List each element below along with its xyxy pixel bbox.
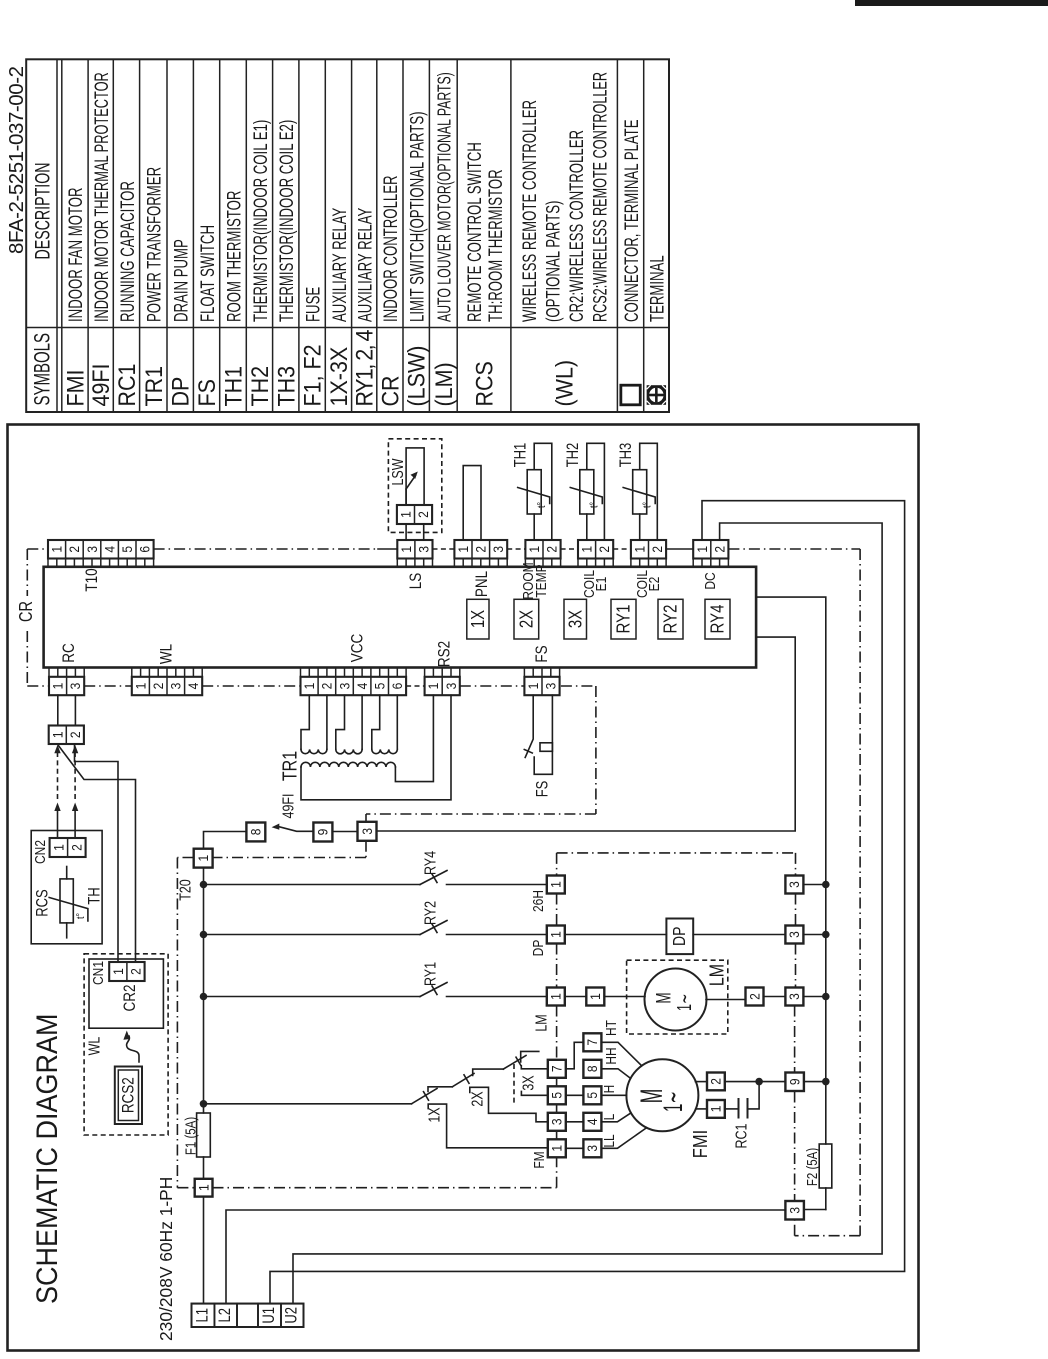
running capacitor RC1 (725, 1108, 739, 1110)
svg-text:230/208V 60Hz 1-PH: 230/208V 60Hz 1-PH (156, 1177, 176, 1341)
svg-text:5: 5 (584, 1092, 600, 1099)
wire CR box to 49FI (377, 637, 796, 831)
svg-text:3: 3 (543, 683, 559, 690)
svg-text:TH1: TH1 (221, 366, 247, 407)
stub wire to FM terminal 5 (H) (521, 1091, 547, 1095)
svg-text:9: 9 (787, 1078, 803, 1085)
svg-text:3X: 3X (519, 1075, 537, 1091)
svg-text:3: 3 (67, 683, 83, 690)
svg-text:RS2: RS2 (435, 641, 454, 667)
svg-text:2: 2 (67, 731, 83, 738)
svg-text:FS: FS (533, 645, 552, 662)
terminal 1b (LM row) (586, 988, 604, 1006)
optional 3X dashed line (513, 1064, 515, 1105)
relay contact 3X (503, 1056, 526, 1070)
wire DC pin1 to U1 (270, 501, 905, 1304)
svg-text:3: 3 (443, 683, 459, 690)
TR1 primary left to RS2 pin3 (301, 695, 451, 800)
svg-text:TH3: TH3 (273, 366, 299, 407)
relay contact RY1 (204, 996, 421, 998)
wire 26H-3 to bus (803, 884, 825, 886)
dashed mating arrows to CN2 (57, 752, 59, 800)
svg-text:1∼: 1∼ (673, 994, 696, 1011)
FM connector terminal 1 (548, 1139, 566, 1157)
svg-text:5: 5 (372, 683, 388, 690)
wire DC pin2 to U2 (293, 523, 882, 1304)
terminal 3 (LM row) (785, 988, 803, 1006)
svg-text:2: 2 (415, 511, 431, 518)
svg-text:INDOOR CONTROLLER: INDOOR CONTROLLER (380, 175, 402, 322)
wire CR box to relay output bus (756, 597, 826, 1144)
terminal 3 (26H) (785, 876, 803, 894)
svg-text:CR: CR (17, 601, 37, 622)
svg-text:F1, F2: F1, F2 (300, 344, 326, 406)
svg-text:2: 2 (746, 993, 762, 1000)
svg-text:1X: 1X (467, 610, 488, 628)
svg-text:WL: WL (157, 644, 176, 664)
svg-text:4: 4 (354, 683, 370, 690)
svg-text:CN2: CN2 (32, 840, 49, 864)
limit switch LSW dashed box (388, 439, 441, 533)
3X NO bar (521, 1051, 539, 1062)
svg-text:2: 2 (150, 683, 166, 690)
CR terminal 3 (49FI) (358, 822, 377, 841)
svg-text:DP: DP (670, 927, 689, 946)
svg-text:INDOOR MOTOR THERMAL PROTECTOR: INDOOR MOTOR THERMAL PROTECTOR (92, 72, 113, 322)
wire FMI to terminal 1 (696, 1108, 707, 1110)
CR dash-dot boundary top row (27, 548, 48, 550)
wire motor5 H to FMI (601, 1094, 626, 1096)
svg-text:RCS2: RCS2 (119, 1077, 138, 1113)
thermistor TH2 (587, 443, 605, 540)
wire junction to 1X row handled; F1 fuse (5A) (197, 1113, 211, 1157)
relay contact 2X (452, 1074, 474, 1087)
svg-text:RCS: RCS (472, 361, 498, 406)
svg-text:U1: U1 (261, 1307, 279, 1324)
svg-text:3: 3 (416, 546, 432, 553)
fuse F2 (5A) (819, 1144, 832, 1188)
svg-text:4: 4 (185, 683, 201, 690)
FM connector terminal 7 (548, 1060, 566, 1078)
crossover wires CN1 to plug (75, 744, 119, 962)
connector COIL E2 on CR (631, 540, 666, 559)
indoor fan motor FMI circle (626, 1059, 698, 1131)
svg-text:2X: 2X (468, 1091, 486, 1107)
connector DC on CR (693, 540, 728, 559)
svg-text:RC1: RC1 (732, 1123, 750, 1148)
wire FM3 to motor4 (566, 1121, 584, 1123)
relay contact RY2 (204, 934, 421, 936)
svg-text:LM: LM (532, 1014, 550, 1031)
svg-text:(LSW): (LSW) (404, 346, 430, 407)
svg-text:1X-3X: 1X-3X (326, 347, 352, 407)
svg-text:LIMIT SWITCH(OPTIONAL PARTS): LIMIT SWITCH(OPTIONAL PARTS) (406, 111, 428, 322)
CR dash-dot boundary bottom row (27, 685, 49, 687)
svg-text:5: 5 (119, 546, 135, 553)
svg-text:SCHEMATIC DIAGRAM: SCHEMATIC DIAGRAM (31, 1014, 63, 1304)
remote plug connector 1 2 (49, 726, 84, 745)
svg-text:FS: FS (194, 379, 220, 406)
LSW connector pins 1 2 (397, 505, 432, 524)
svg-text:1: 1 (49, 546, 65, 553)
svg-text:FS: FS (534, 781, 552, 798)
svg-text:L2: L2 (217, 1308, 235, 1322)
label box RY2 inside CR (658, 599, 683, 639)
svg-text:2: 2 (712, 546, 728, 553)
label box RY1 inside CR (611, 599, 636, 639)
svg-text:3: 3 (786, 931, 802, 938)
svg-text:1: 1 (548, 993, 564, 1000)
wire 9 to 3 (332, 831, 357, 833)
svg-text:LS: LS (407, 573, 426, 590)
RCS thermistor TH (66, 867, 68, 879)
terminal 3 (power) (785, 1201, 804, 1220)
svg-text:1: 1 (51, 844, 67, 851)
svg-text:HT: HT (603, 1020, 620, 1036)
svg-text:DP: DP (530, 940, 547, 957)
svg-text:1: 1 (196, 1184, 212, 1191)
label box 2X inside CR (514, 599, 539, 639)
motor terminal 8 (HH) (583, 1060, 601, 1078)
PNL jumper plug (463, 466, 481, 540)
svg-text:t°: t° (642, 502, 654, 508)
FMI terminal 2 (707, 1073, 725, 1091)
svg-text:VCC: VCC (348, 634, 367, 662)
wire DP row (565, 934, 667, 936)
svg-text:3: 3 (84, 546, 100, 553)
terminal 1 (LM row) (547, 988, 565, 1006)
svg-text:5: 5 (549, 1092, 565, 1099)
svg-text:1: 1 (133, 683, 149, 690)
svg-text:TR1: TR1 (141, 366, 167, 407)
svg-text:t°: t° (536, 502, 548, 508)
svg-text:1: 1 (525, 683, 541, 690)
svg-text:WL: WL (85, 1037, 103, 1056)
svg-text:6: 6 (389, 683, 405, 690)
49FI thermal protector contact (272, 824, 280, 830)
svg-text:TH:ROOM THERMISTOR: TH:ROOM THERMISTOR (484, 169, 506, 322)
wire FM7 jog to motor7 HT (566, 1042, 584, 1069)
svg-text:(OPTIONAL PARTS): (OPTIONAL PARTS) (542, 201, 564, 322)
svg-text:TH3: TH3 (618, 443, 636, 468)
svg-text:RY2: RY2 (660, 605, 681, 634)
svg-text:(WL): (WL) (552, 360, 578, 407)
connector PNL on CR (454, 540, 507, 559)
svg-text:RUNNING CAPACITOR: RUNNING CAPACITOR (116, 181, 138, 322)
terminal 1 (DP row) (547, 926, 565, 944)
svg-text:TERMINAL: TERMINAL (646, 255, 668, 322)
svg-text:CR: CR (377, 375, 403, 406)
svg-text:1: 1 (708, 1106, 724, 1113)
svg-text:ROOM THERMISTOR: ROOM THERMISTOR (223, 191, 245, 322)
svg-text:1∼: 1∼ (657, 1091, 688, 1112)
svg-text:E2: E2 (646, 577, 663, 592)
TR1 primary winding (301, 762, 395, 767)
svg-text:1: 1 (548, 931, 564, 938)
TR1 primary right to RS2 pin1 (395, 695, 433, 781)
wire L2 to terminal 3 (226, 1210, 785, 1304)
2X NC bar to FM terminal 3 (470, 1087, 548, 1122)
louver motor M circle (645, 969, 707, 1031)
svg-text:1: 1 (398, 511, 414, 518)
wireless signal squiggle arrow (127, 1036, 139, 1062)
svg-text:FMI: FMI (688, 1130, 711, 1158)
table row CONNECTOR, TERMINAL PLATE (621, 385, 640, 405)
wire FM5 to motor5 (566, 1094, 584, 1096)
svg-text:3: 3 (359, 828, 375, 835)
svg-text:RY1: RY1 (421, 962, 439, 986)
CR dash-dot boundary label CR (26, 549, 28, 686)
T20 terminal 1 (194, 849, 213, 868)
relay section dash-dot frame (557, 852, 796, 854)
svg-text:3: 3 (336, 683, 352, 690)
svg-text:3: 3 (787, 1207, 803, 1214)
svg-text:2: 2 (66, 546, 82, 553)
svg-text:8FA-2-5251-037-00-2: 8FA-2-5251-037-00-2 (5, 66, 28, 254)
svg-text:T20: T20 (176, 879, 194, 901)
CR dash-dot T20 to F1 terminal 1 (177, 857, 193, 859)
wire terminal2 to 9 (725, 1081, 786, 1083)
CR dash-dot bottom-right corner to F2 terminal 3 (795, 1235, 861, 1237)
svg-text:DP: DP (168, 377, 194, 407)
terminal 1 (power F1) (195, 1179, 213, 1197)
connector WL on CR (132, 677, 202, 695)
svg-text:1: 1 (110, 968, 126, 975)
terminal 9 (785, 1073, 804, 1092)
svg-text:FMI: FMI (63, 369, 89, 406)
1X NO bar to 2X (428, 1087, 452, 1092)
svg-text:3: 3 (786, 881, 802, 888)
wires RC pins to plug (57, 695, 59, 725)
svg-text:AUXILIARY RELAY: AUXILIARY RELAY (354, 208, 376, 322)
LSW to LS stubs (405, 524, 407, 540)
svg-text:2X: 2X (516, 610, 537, 628)
wire FM1 to motor3 (566, 1147, 584, 1149)
svg-text:L1: L1 (194, 1308, 212, 1322)
svg-text:3: 3 (549, 1118, 565, 1125)
terminal 1 (26H) (547, 876, 565, 894)
svg-text:TH2: TH2 (565, 443, 583, 468)
svg-text:2: 2 (473, 546, 489, 553)
svg-text:DC: DC (702, 572, 719, 589)
LSW switch blade (406, 476, 415, 490)
svg-text:1: 1 (587, 993, 603, 1000)
svg-text:1: 1 (579, 546, 595, 553)
wire motor3 LL to FMI (601, 1128, 646, 1149)
svg-text:1: 1 (398, 546, 414, 553)
2X NO bar to 3X (473, 1069, 504, 1075)
svg-text:1: 1 (49, 731, 65, 738)
svg-text:RY1: RY1 (613, 605, 634, 634)
float switch FS symbol (525, 695, 533, 757)
motor terminal 7 (HT) (583, 1033, 601, 1051)
svg-text:2: 2 (596, 546, 612, 553)
svg-text:RC1: RC1 (114, 363, 140, 406)
svg-text:PNL: PNL (473, 571, 492, 597)
svg-text:3: 3 (584, 1145, 600, 1152)
wire to louver motor (604, 996, 645, 998)
svg-text:H: H (601, 1085, 618, 1094)
svg-text:8: 8 (584, 1065, 600, 1072)
svg-text:1: 1 (425, 683, 441, 690)
svg-text:DRAIN PUMP: DRAIN PUMP (170, 239, 192, 322)
svg-text:TH: TH (86, 887, 104, 904)
symbols/description table frame (26, 59, 669, 412)
svg-text:LL: LL (601, 1134, 618, 1148)
svg-text:F2 (5A): F2 (5A) (804, 1148, 821, 1186)
svg-text:1: 1 (632, 546, 648, 553)
wire T20 to 8 (204, 832, 247, 849)
svg-text:AUTO LOUVER MOTOR(OPTIONAL PAR: AUTO LOUVER MOTOR(OPTIONAL PARTS) (435, 72, 455, 322)
svg-text:HH: HH (603, 1047, 620, 1064)
wireless remote controller RCS2 box (115, 1067, 142, 1125)
power terminal strip L1 L2 U1 U2 (192, 1304, 304, 1327)
svg-text:TH1: TH1 (512, 443, 530, 468)
auto louver motor LM dashed box (627, 960, 728, 1034)
svg-text:FM: FM (531, 1151, 548, 1168)
svg-text:3: 3 (490, 546, 506, 553)
CR2 connector CN1 (109, 962, 144, 981)
svg-text:3: 3 (168, 683, 184, 690)
TR1 secondary winding 3 (372, 695, 380, 749)
svg-text:1: 1 (301, 683, 317, 690)
svg-text:CR2: CR2 (121, 985, 140, 1012)
svg-text:2: 2 (319, 683, 335, 690)
wire motor7 HT to FMI (601, 1042, 641, 1066)
svg-text:RY4: RY4 (421, 851, 439, 875)
FMI terminal 1 (707, 1100, 725, 1118)
svg-text:POWER TRANSFORMER: POWER TRANSFORMER (143, 167, 165, 322)
connector RS2 on CR (425, 677, 460, 695)
motor terminal 4 (L) (583, 1113, 601, 1131)
svg-text:WIRELESS REMOTE CONTROLLER: WIRELESS REMOTE CONTROLLER (519, 100, 541, 322)
FM connector terminal 5 (548, 1086, 566, 1104)
wire 9 to bus (804, 1081, 826, 1083)
svg-text:4: 4 (584, 1118, 600, 1125)
svg-text:FLOAT SWITCH: FLOAT SWITCH (196, 225, 218, 322)
svg-text:7: 7 (584, 1039, 600, 1046)
svg-text:t°: t° (75, 913, 87, 919)
svg-text:1: 1 (548, 881, 564, 888)
connector LS on CR (397, 540, 432, 559)
FM connector terminal 3 (548, 1113, 566, 1131)
svg-text:INDOOR FAN MOTOR: INDOOR FAN MOTOR (65, 187, 87, 322)
svg-text:THERMISTOR(INDOOR COIL E2): THERMISTOR(INDOOR COIL E2) (275, 120, 297, 322)
TR1 secondary winding 1 (301, 695, 309, 749)
svg-text:T10: T10 (83, 568, 102, 591)
wire live to 1X (204, 1103, 412, 1105)
svg-text:1: 1 (195, 855, 211, 862)
svg-text:1: 1 (50, 683, 66, 690)
1X NC bar to FM terminal 1 (428, 1104, 548, 1148)
motor terminal 5 (H) (583, 1086, 601, 1104)
svg-text:26H: 26H (530, 890, 547, 912)
svg-text:LM: LM (706, 964, 728, 986)
svg-text:L: L (601, 1113, 618, 1120)
svg-text:RC: RC (60, 643, 79, 662)
svg-text:3X: 3X (565, 610, 586, 628)
svg-text:2: 2 (128, 968, 144, 975)
CR dash-dot right side vertical (859, 549, 861, 1236)
junction dots on live wire (200, 881, 208, 889)
wireless WL dashed box (84, 954, 168, 1135)
svg-text:2: 2 (708, 1078, 724, 1085)
wire louver motor to terminal 2 (706, 999, 746, 1001)
49FI terminal 9 (313, 823, 332, 842)
svg-text:THERMISTOR(INDOOR COIL E1): THERMISTOR(INDOOR COIL E1) (249, 120, 271, 322)
svg-text:F1 (5A): F1 (5A) (182, 1117, 199, 1155)
svg-text:1: 1 (455, 546, 471, 553)
svg-text:DESCRIPTION: DESCRIPTION (31, 162, 55, 259)
svg-text:9: 9 (315, 829, 331, 836)
svg-text:7: 7 (549, 1065, 565, 1072)
svg-text:1: 1 (694, 546, 710, 553)
svg-text:TEMP: TEMP (533, 564, 550, 597)
49FI terminal 8 (246, 823, 265, 842)
svg-text:FUSE: FUSE (302, 287, 324, 322)
LSW plug loop (405, 489, 407, 505)
terminal 3 (DP row) (785, 926, 803, 944)
relay contact RY4 (204, 884, 421, 886)
connector T10 on CR (48, 540, 154, 559)
connector ROOM TEMP on CR (525, 540, 560, 559)
3X NC wire to FM terminal 7 (521, 1066, 548, 1069)
svg-text:8: 8 (248, 829, 264, 836)
relay contact 1X (412, 1089, 438, 1104)
wire FMI to terminal 2 (695, 1081, 707, 1083)
label box 1X inside CR (467, 599, 489, 639)
svg-text:CN1: CN1 (90, 961, 107, 985)
svg-text:RCS: RCS (34, 889, 52, 917)
svg-text:AUXILIARY RELAY: AUXILIARY RELAY (328, 208, 350, 322)
svg-text:REMOTE CONTROL SWITCH: REMOTE CONTROL SWITCH (463, 142, 485, 322)
svg-text:2: 2 (649, 546, 665, 553)
svg-text:E1: E1 (593, 577, 610, 592)
connector RC on CR (49, 677, 84, 695)
svg-text:RY2: RY2 (421, 901, 439, 925)
svg-text:6: 6 (137, 546, 153, 553)
remote control switch RCS box (31, 831, 102, 944)
svg-text:TH2: TH2 (247, 366, 273, 407)
svg-text:RY4: RY4 (707, 605, 728, 634)
svg-text:SYMBOLS: SYMBOLS (30, 333, 54, 405)
wire motor8 HH to FMI (601, 1069, 630, 1079)
connector COIL E1 on CR (578, 540, 613, 559)
CR dash-dot FS branch (595, 686, 597, 814)
svg-text:49FI: 49FI (88, 363, 114, 406)
CR dash-dot 49FI terminal 3 to T20 (365, 841, 367, 858)
svg-text:2: 2 (69, 844, 85, 851)
indoor controller CR box (44, 567, 757, 668)
svg-text:49FI: 49FI (279, 794, 297, 819)
table row TERMINAL (647, 385, 666, 405)
wireless controller CR2 box (89, 959, 163, 1028)
svg-text:M: M (652, 992, 676, 1003)
connector FS on CR (524, 677, 559, 695)
wire motor4 L to FMI (601, 1113, 631, 1122)
terminal 2 (LM row) (746, 988, 764, 1006)
svg-text:RCS2:WIRELESS REMOTE CONTROLLE: RCS2:WIRELESS REMOTE CONTROLLER (590, 72, 611, 322)
dash-dot terminal3 column to 9 and F2-3 (794, 1006, 796, 1074)
svg-text:CR2:WIRELESS CONTROLLER: CR2:WIRELESS CONTROLLER (566, 130, 588, 322)
svg-text:1: 1 (526, 546, 542, 553)
svg-text:1: 1 (549, 1145, 565, 1152)
svg-text:3: 3 (786, 993, 802, 1000)
label box RY4 inside CR (705, 599, 730, 639)
thermistor TH1 (534, 443, 552, 540)
label box 3X inside CR (564, 599, 587, 639)
dash-dot LM terminal1 down to FM connector (556, 1006, 558, 1060)
